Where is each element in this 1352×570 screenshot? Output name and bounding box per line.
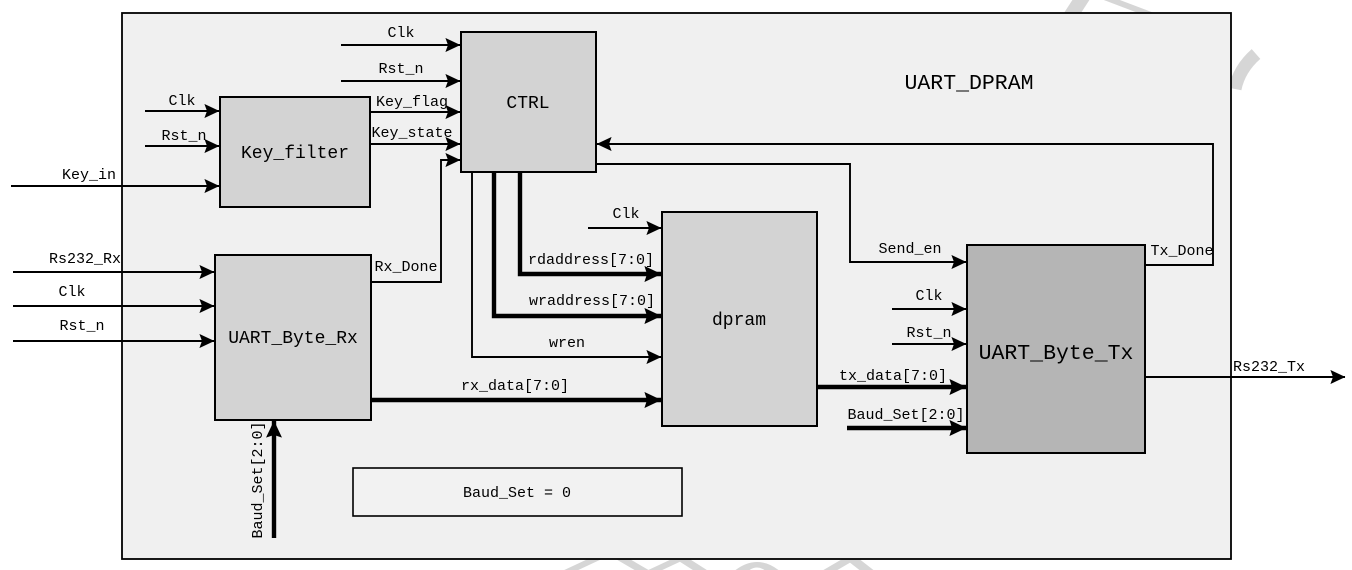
wire Rs232_Tx output xyxy=(1145,359,1345,377)
svg-text:rx_data[7:0]: rx_data[7:0] xyxy=(461,378,569,395)
wire Clk to Tx xyxy=(892,288,966,309)
box Baud_Set = 0 xyxy=(353,468,682,516)
svg-text:wren: wren xyxy=(549,335,585,352)
svg-text:Baud_Set[2:0]: Baud_Set[2:0] xyxy=(847,407,964,424)
svg-text:Rs232_Rx: Rs232_Rx xyxy=(49,251,121,268)
block UART_Byte_Rx xyxy=(215,255,371,420)
svg-text:Key_filter: Key_filter xyxy=(241,144,349,164)
svg-text:Baud_Set[2:0]: Baud_Set[2:0] xyxy=(250,421,267,538)
wire Tx_Done Tx to CTRL xyxy=(597,144,1214,265)
wire rx_data Rx to dpram xyxy=(371,378,661,400)
svg-text:dpram: dpram xyxy=(712,311,766,331)
svg-text:UART_DPRAM: UART_DPRAM xyxy=(904,72,1033,96)
wire Key_flag to CTRL xyxy=(370,94,460,112)
svg-text:Rst_n: Rst_n xyxy=(59,318,104,335)
svg-text:CTRL: CTRL xyxy=(506,94,549,114)
svg-text:Rst_n: Rst_n xyxy=(378,61,423,78)
svg-text:Key_flag: Key_flag xyxy=(376,94,448,111)
svg-text:rdaddress[7:0]: rdaddress[7:0] xyxy=(528,252,654,269)
wire Key_state to CTRL xyxy=(370,125,460,144)
svg-text:Rst_n: Rst_n xyxy=(161,128,206,145)
svg-text:Tx_Done: Tx_Done xyxy=(1150,243,1213,260)
svg-text:Clk: Clk xyxy=(58,284,85,301)
svg-text:Clk: Clk xyxy=(168,93,195,110)
svg-text:tx_data[7:0]: tx_data[7:0] xyxy=(839,368,947,385)
wire Key_in to Key_filter xyxy=(11,167,219,186)
wire tx_data dpram to Tx xyxy=(817,368,966,387)
wire wraddress CTRL to dpram xyxy=(494,172,661,316)
frame UART_DPRAM boundary xyxy=(122,13,1231,559)
block Key_filter xyxy=(220,97,370,207)
svg-text:UART_Byte_Rx: UART_Byte_Rx xyxy=(228,329,358,349)
svg-text:Key_state: Key_state xyxy=(371,125,452,142)
block dpram xyxy=(662,212,817,426)
svg-text:Rs232_Tx: Rs232_Tx xyxy=(1233,359,1305,376)
wire Clk to Rx xyxy=(13,284,214,306)
wire Rst_n to CTRL xyxy=(341,61,460,81)
wire Rst_n to Key_filter xyxy=(145,128,219,146)
block CTRL xyxy=(461,32,596,172)
wire Rx_Done to CTRL xyxy=(371,160,460,282)
wire Baud_Set to Tx xyxy=(847,407,966,428)
wire Clk to CTRL xyxy=(341,25,460,45)
svg-text:Baud_Set = 0: Baud_Set = 0 xyxy=(463,485,571,502)
svg-text:Rx_Done: Rx_Done xyxy=(374,259,437,276)
wire Clk to dpram xyxy=(588,206,661,228)
wire Rst_n to Rx xyxy=(13,318,214,341)
wire Rs232_Rx to Rx xyxy=(13,251,214,272)
wire Clk to Key_filter xyxy=(145,93,219,111)
wire wren CTRL to dpram xyxy=(472,172,661,357)
svg-text:Clk: Clk xyxy=(915,288,942,305)
wire Send_en CTRL to Tx xyxy=(596,164,966,262)
block UART_Byte_Tx xyxy=(967,245,1145,453)
svg-text:Clk: Clk xyxy=(612,206,639,223)
svg-text:Send_en: Send_en xyxy=(878,241,941,258)
svg-text:UART_Byte_Tx: UART_Byte_Tx xyxy=(979,342,1134,366)
wire rdaddress CTRL to dpram xyxy=(520,172,661,274)
svg-text:Rst_n: Rst_n xyxy=(906,325,951,342)
svg-text:wraddress[7:0]: wraddress[7:0] xyxy=(529,293,655,310)
wire Baud_Set to Rx xyxy=(250,421,274,539)
watermark strokes xyxy=(560,0,1256,570)
svg-text:Key_in: Key_in xyxy=(62,167,116,184)
svg-text:Clk: Clk xyxy=(387,25,414,42)
wire Rst_n to Tx xyxy=(892,325,966,344)
